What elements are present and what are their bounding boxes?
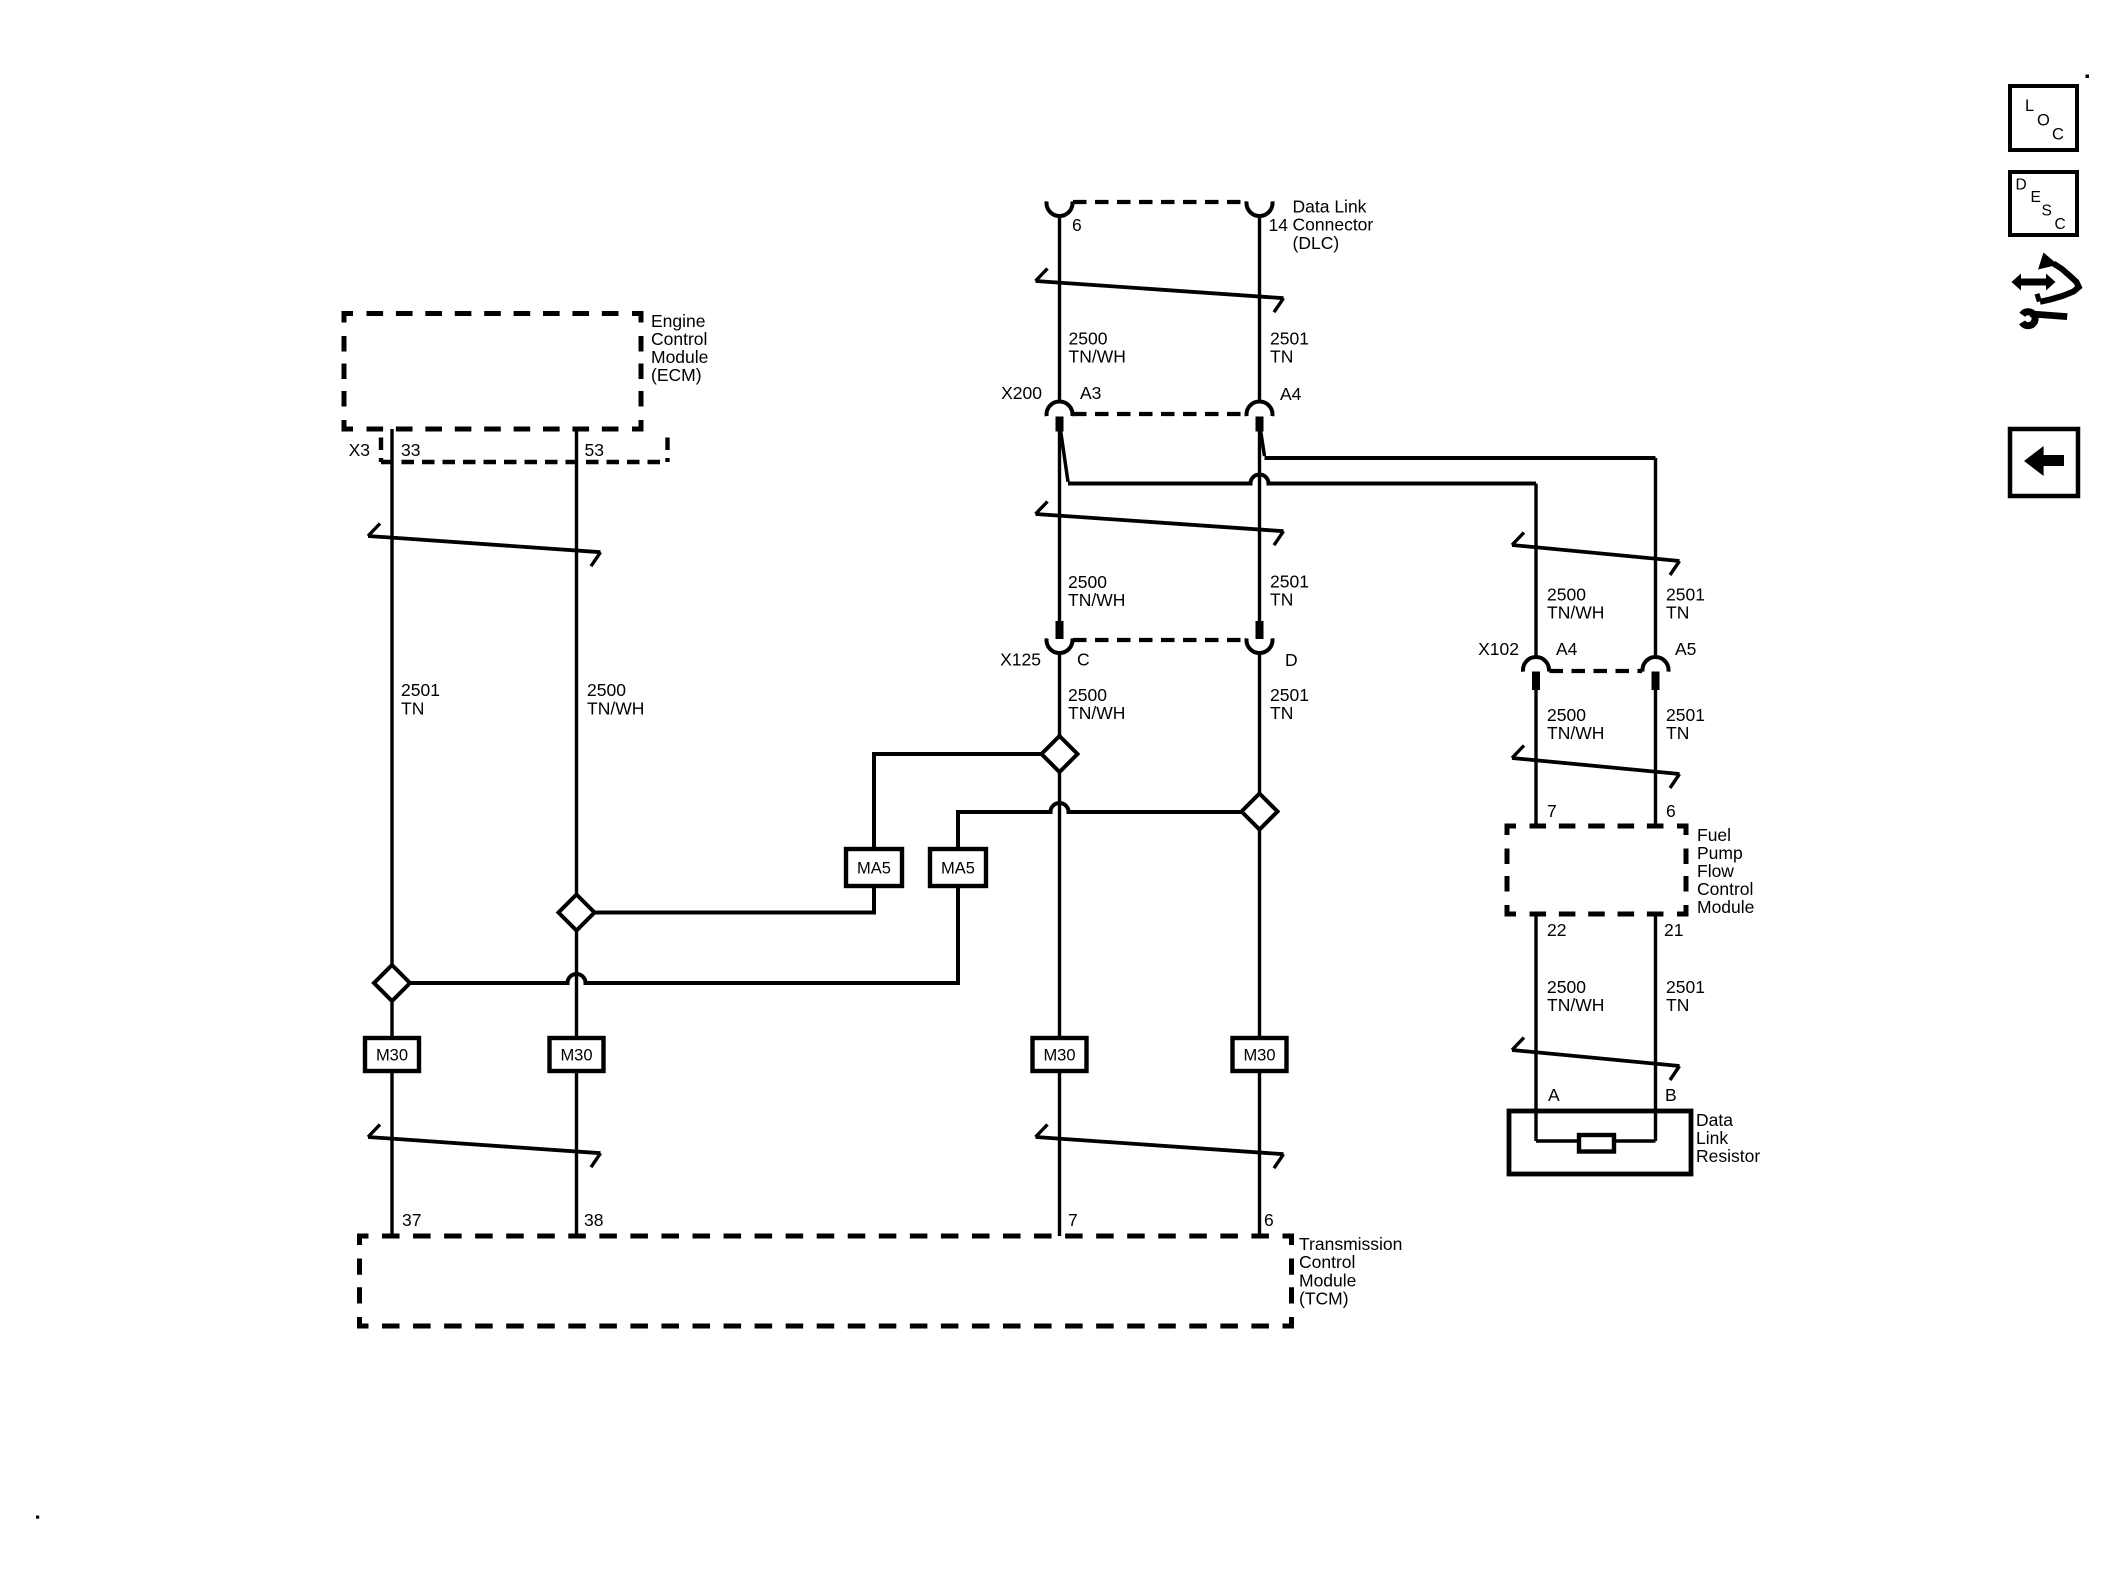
svg-text:A4: A4 (1556, 639, 1578, 659)
svg-text:21: 21 (1664, 920, 1683, 940)
svg-text:Fuel: Fuel (1697, 825, 1731, 845)
svg-text:TN: TN (1666, 603, 1689, 623)
svg-text:38: 38 (584, 1210, 603, 1230)
svg-text:A: A (1548, 1085, 1560, 1105)
svg-text:TN/WH: TN/WH (1547, 995, 1604, 1015)
svg-text:6: 6 (1072, 215, 1082, 235)
svg-text:2501: 2501 (401, 680, 440, 700)
svg-text:6: 6 (1666, 801, 1676, 821)
svg-text:M30: M30 (560, 1047, 592, 1065)
svg-text:2501: 2501 (1666, 705, 1705, 725)
svg-text:7: 7 (1068, 1210, 1078, 1230)
svg-text:L: L (2025, 97, 2034, 115)
svg-text:Pump: Pump (1697, 843, 1743, 863)
svg-text:22: 22 (1547, 920, 1566, 940)
svg-text:2501: 2501 (1666, 977, 1705, 997)
svg-text:2500: 2500 (1547, 585, 1586, 605)
svg-text:2501: 2501 (1270, 329, 1309, 349)
svg-text:TN/WH: TN/WH (1069, 347, 1126, 367)
svg-text:Connector: Connector (1293, 215, 1374, 235)
svg-text:O: O (2037, 112, 2050, 130)
svg-text:M30: M30 (1243, 1047, 1275, 1065)
svg-text:2500: 2500 (1547, 977, 1586, 997)
svg-text:TN/WH: TN/WH (1547, 603, 1604, 623)
svg-text:TN/WH: TN/WH (1068, 703, 1125, 723)
svg-text:C: C (1077, 650, 1090, 670)
svg-text:A3: A3 (1080, 383, 1101, 403)
svg-text:D: D (1285, 650, 1298, 670)
svg-text:Module: Module (651, 347, 708, 367)
svg-text:MA5: MA5 (857, 860, 891, 878)
svg-text:Transmission: Transmission (1299, 1234, 1402, 1254)
svg-text:(TCM): (TCM) (1299, 1289, 1349, 1309)
svg-text:X3: X3 (349, 440, 370, 460)
svg-text:7: 7 (1547, 801, 1557, 821)
svg-text:Resistor: Resistor (1696, 1146, 1760, 1166)
svg-text:Engine: Engine (651, 311, 706, 331)
svg-text:2501: 2501 (1270, 685, 1309, 705)
svg-text:14: 14 (1269, 215, 1289, 235)
svg-text:TN/WH: TN/WH (1547, 723, 1604, 743)
svg-text:6: 6 (1264, 1210, 1274, 1230)
svg-text:Control: Control (1697, 879, 1753, 899)
svg-text:Control: Control (1299, 1252, 1355, 1272)
svg-text:MA5: MA5 (941, 860, 975, 878)
svg-text:2501: 2501 (1666, 585, 1705, 605)
svg-text:X102: X102 (1478, 639, 1519, 659)
svg-text:2500: 2500 (1068, 685, 1107, 705)
svg-text:D: D (2016, 177, 2027, 194)
svg-text:TN: TN (1666, 995, 1689, 1015)
svg-text:TN/WH: TN/WH (1068, 590, 1125, 610)
svg-text:S: S (2042, 203, 2052, 220)
svg-text:X200: X200 (1001, 383, 1042, 403)
svg-text:2500: 2500 (1547, 705, 1586, 725)
svg-text:TN: TN (1666, 723, 1689, 743)
svg-text:C: C (2055, 216, 2066, 233)
svg-text:TN: TN (1270, 590, 1293, 610)
svg-text:Control: Control (651, 329, 707, 349)
svg-text:Flow: Flow (1697, 861, 1734, 881)
svg-text:Module: Module (1697, 897, 1754, 917)
svg-text:(DLC): (DLC) (1293, 233, 1340, 253)
svg-text:E: E (2031, 189, 2041, 206)
svg-text:C: C (2052, 126, 2064, 144)
svg-text:33: 33 (401, 440, 420, 460)
svg-text:X125: X125 (1000, 650, 1041, 670)
svg-text:TN/WH: TN/WH (587, 699, 644, 719)
svg-text:Link: Link (1696, 1128, 1728, 1148)
svg-text:TN: TN (1270, 347, 1293, 367)
svg-text:A5: A5 (1675, 639, 1696, 659)
svg-text:(ECM): (ECM) (651, 365, 702, 385)
svg-text:2500: 2500 (587, 680, 626, 700)
svg-text:2500: 2500 (1069, 329, 1108, 349)
svg-text:M30: M30 (1043, 1047, 1075, 1065)
svg-text:37: 37 (402, 1210, 421, 1230)
svg-text:Data Link: Data Link (1293, 197, 1367, 217)
svg-text:2501: 2501 (1270, 572, 1309, 592)
svg-text:TN: TN (1270, 703, 1293, 723)
svg-text:M30: M30 (376, 1047, 408, 1065)
svg-text:B: B (1665, 1085, 1677, 1105)
svg-text:Data: Data (1696, 1110, 1733, 1130)
svg-text:TN: TN (401, 699, 424, 719)
svg-text:2500: 2500 (1068, 572, 1107, 592)
svg-text:A4: A4 (1280, 384, 1302, 404)
svg-text:53: 53 (585, 440, 604, 460)
svg-text:Module: Module (1299, 1270, 1356, 1290)
